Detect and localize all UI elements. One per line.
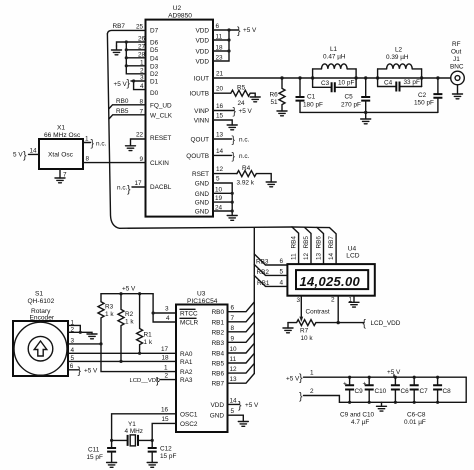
svg-text:5: 5 <box>216 176 220 183</box>
svg-text:10: 10 <box>215 186 223 193</box>
svg-text:}: } <box>91 138 95 150</box>
wire VINN pin 15 to ground <box>213 113 232 126</box>
wire D6-D2 ground ladder <box>117 36 146 75</box>
svg-text:27: 27 <box>138 43 146 50</box>
svg-text:RB2: RB2 <box>257 269 270 276</box>
net LCD_VDD to RA3 <box>130 373 177 387</box>
wire OSC2 pin 15 <box>152 416 176 440</box>
svg-text:RA2: RA2 <box>180 369 193 376</box>
wire VDD pins 6,11,18,23 ladder to +5V <box>213 23 238 62</box>
resistor R5 24 <box>231 85 255 108</box>
svg-text:GND: GND <box>195 191 210 198</box>
svg-text:R3: R3 <box>105 304 114 311</box>
svg-text:C8: C8 <box>443 388 452 395</box>
svg-text:20: 20 <box>216 86 224 93</box>
svg-text:MCLR: MCLR <box>180 320 198 327</box>
svg-text:n.c.: n.c. <box>96 141 107 148</box>
wire RB1 pin 7 to bus <box>228 312 255 322</box>
svg-text:11: 11 <box>291 253 298 260</box>
svg-text:+5 V: +5 V <box>245 402 259 409</box>
wire QOUT pin 13 n.c. <box>213 132 250 147</box>
svg-text:R5: R5 <box>237 85 246 92</box>
svg-text:RB2: RB2 <box>212 329 225 336</box>
svg-text:RB4: RB4 <box>212 351 225 358</box>
ground at VINN <box>227 125 237 130</box>
svg-text:1 k: 1 k <box>125 319 134 326</box>
svg-text:}: } <box>233 106 237 118</box>
svg-text:15: 15 <box>216 113 224 120</box>
ground at U3 GND <box>238 422 248 427</box>
svg-text:Out: Out <box>451 49 462 56</box>
capacitor C6 0.01uF <box>391 376 409 404</box>
svg-text:RF: RF <box>452 41 461 48</box>
svg-text:RB5: RB5 <box>212 361 225 368</box>
capacitor C11 15pF <box>87 440 117 462</box>
svg-text:180 pF: 180 pF <box>303 102 323 109</box>
wire bus branch RB1 to LCD pin 4 <box>254 276 287 288</box>
wire RB0 to FQ_UD pin 8 <box>109 98 146 109</box>
wire RB4 pin 10 to bus <box>228 343 255 353</box>
resistor R6 51 <box>270 78 286 111</box>
wire data bus vertical run <box>107 34 292 229</box>
svg-text:C12: C12 <box>160 446 172 453</box>
svg-text:4: 4 <box>71 347 75 354</box>
wire RB6 pin 12 to bus <box>228 363 255 373</box>
svg-text:}: } <box>78 365 82 377</box>
svg-text:C11: C11 <box>88 447 100 454</box>
svg-text:RESET: RESET <box>150 135 171 142</box>
svg-text:VINP: VINP <box>194 108 209 115</box>
resistor R1 1k <box>137 294 153 355</box>
+5V rail above R1 R2 R3 <box>101 286 153 296</box>
svg-text:13: 13 <box>230 376 238 383</box>
svg-text:14: 14 <box>328 252 335 260</box>
svg-text:}: } <box>23 149 27 161</box>
svg-text:15 pF: 15 pF <box>160 453 176 460</box>
svg-text:1 k: 1 k <box>144 339 153 346</box>
wire GND pins 5,10,19,24 ladder <box>213 176 234 216</box>
svg-text:3: 3 <box>140 75 144 82</box>
svg-text:FQ_UD: FQ_UD <box>150 103 172 110</box>
svg-text:R6: R6 <box>270 92 279 99</box>
svg-text:16: 16 <box>216 103 224 110</box>
svg-text:VDD: VDD <box>211 402 225 409</box>
wire RB3 pin 9 to bus <box>228 333 255 343</box>
wire QOUTB pin 14 n.c. <box>213 148 250 163</box>
svg-text:150 pF: 150 pF <box>414 100 434 107</box>
svg-text:18: 18 <box>162 354 170 361</box>
+5V terminal at U3 VDD pin 14 <box>228 397 260 411</box>
svg-text:VDD: VDD <box>196 49 210 56</box>
ground at R6 <box>277 111 287 116</box>
svg-text:RB5: RB5 <box>303 236 310 249</box>
svg-text:GND: GND <box>195 200 210 207</box>
svg-text:R1: R1 <box>144 332 153 339</box>
wire LCD pin 2 to LCD_VDD <box>331 296 340 325</box>
svg-text:D5: D5 <box>150 47 159 54</box>
crystal Y1 4MHz <box>110 421 154 446</box>
svg-text:}: } <box>299 391 303 403</box>
svg-text:14: 14 <box>216 148 224 155</box>
wire IOUT pin 21 <box>213 71 451 79</box>
svg-text:U2: U2 <box>173 5 182 12</box>
svg-text:10: 10 <box>230 346 238 353</box>
svg-text:5 V: 5 V <box>13 152 23 159</box>
svg-text:RB5: RB5 <box>116 108 129 115</box>
wire RB7 pin 13 to bus <box>228 374 255 384</box>
svg-text:+: + <box>363 381 367 388</box>
svg-text:16: 16 <box>161 406 169 413</box>
wire bus branch RB5 to LCD <box>292 227 311 264</box>
svg-text:CLKIN: CLKIN <box>150 160 169 167</box>
svg-text:26: 26 <box>138 36 146 43</box>
svg-text:AD9850: AD9850 <box>168 13 192 20</box>
5V terminal at X1 pin 14 <box>13 147 39 161</box>
svg-text:RB4: RB4 <box>291 236 298 249</box>
svg-text:QOUT: QOUT <box>191 137 210 144</box>
svg-text:33 pF: 33 pF <box>404 79 420 86</box>
svg-text:L1: L1 <box>330 46 338 53</box>
resistor R4 3.92k <box>237 165 272 187</box>
svg-text:C9 and C10: C9 and C10 <box>340 412 375 419</box>
svg-text:LCD__VDD: LCD__VDD <box>130 378 161 384</box>
crystal oscillator X1 66 MHz <box>39 125 83 170</box>
ground at S1 <box>87 334 97 339</box>
node C5 junction <box>364 76 367 79</box>
+5V supply line 1 <box>286 370 466 385</box>
svg-text:PIC16C54: PIC16C54 <box>187 298 218 305</box>
svg-text:1: 1 <box>140 59 144 66</box>
svg-text:13: 13 <box>216 132 224 139</box>
inductor L2 0.39uH with capacitor C4 33pF <box>376 47 423 92</box>
svg-text:QOUTB: QOUTB <box>186 153 209 160</box>
svg-text:VDD: VDD <box>196 28 210 35</box>
wire X1 pin 1 n.c. <box>83 136 107 150</box>
svg-text:}: } <box>232 150 236 162</box>
wire bus branch RB7 to LCD <box>317 227 336 264</box>
svg-text:+5 V: +5 V <box>114 81 128 88</box>
svg-text:LCD: LCD <box>346 253 359 260</box>
svg-text:RB7: RB7 <box>328 236 335 249</box>
svg-text:Y1: Y1 <box>128 421 136 428</box>
svg-text:D4: D4 <box>150 55 159 62</box>
svg-text:n.c.: n.c. <box>117 185 128 192</box>
svg-text:}: } <box>127 184 131 196</box>
inductor L1 0.47uH with capacitor C3 10pF <box>311 46 358 92</box>
svg-text:9: 9 <box>231 335 235 342</box>
wire OSC1 pin 16 <box>112 406 176 440</box>
svg-text:W_CLK: W_CLK <box>150 112 173 119</box>
svg-text:OSC1: OSC1 <box>180 411 198 418</box>
svg-text:1: 1 <box>164 365 168 372</box>
svg-text:C1: C1 <box>307 94 316 101</box>
ground at U2 GND <box>227 216 237 221</box>
svg-text:270 pF: 270 pF <box>341 102 361 109</box>
svg-text:15 pF: 15 pF <box>87 454 103 461</box>
svg-text:n.c.: n.c. <box>239 137 250 144</box>
net LCD_VDD terminal <box>363 318 401 330</box>
svg-text:2: 2 <box>165 373 169 380</box>
potentiometer R7 10k <box>288 320 364 342</box>
capacitor C8 0.01uF <box>433 376 451 404</box>
svg-text:3: 3 <box>165 306 169 313</box>
svg-text:13: 13 <box>315 252 322 260</box>
svg-text:RTCC: RTCC <box>180 311 198 318</box>
svg-text:DACBL: DACBL <box>150 184 172 191</box>
svg-text:D1: D1 <box>150 79 159 86</box>
svg-text:7: 7 <box>140 108 144 115</box>
+5V label on line 1 <box>387 369 401 377</box>
rotary encoder S1 QH-6102 <box>13 291 68 377</box>
resistor R2 1k <box>118 294 134 363</box>
svg-text:6: 6 <box>280 258 284 265</box>
resistor R3 1k <box>98 294 114 344</box>
svg-text:GND: GND <box>195 181 210 188</box>
svg-text:+: + <box>343 381 347 388</box>
wire RESET pin 22 to ground <box>131 132 146 146</box>
svg-text:}: } <box>299 372 303 384</box>
microcontroller U3 PIC16C54 <box>176 291 228 433</box>
ground at BNC <box>453 94 463 99</box>
svg-text:+5 V: +5 V <box>239 108 253 115</box>
svg-text:D3: D3 <box>150 63 159 70</box>
svg-text:14: 14 <box>230 397 238 404</box>
svg-text:8: 8 <box>231 325 235 332</box>
svg-text:U4: U4 <box>348 246 357 253</box>
svg-text:15: 15 <box>162 416 170 423</box>
svg-text:25: 25 <box>136 24 144 31</box>
capacitor C5 270pF <box>341 78 370 112</box>
svg-text:28: 28 <box>138 51 146 58</box>
svg-text:5: 5 <box>71 355 75 362</box>
svg-text:12: 12 <box>230 366 238 373</box>
wire S1 pin 4 to RA0 <box>68 346 176 354</box>
svg-text:2: 2 <box>331 297 335 304</box>
wire bus branch RB4 to LCD <box>291 227 299 264</box>
svg-text:14: 14 <box>30 147 38 154</box>
svg-text:10 pF: 10 pF <box>338 80 354 87</box>
svg-text:J1: J1 <box>453 56 460 63</box>
wire LCD pin 3 contrast wiper <box>297 296 330 322</box>
capacitor C12 15pF <box>148 440 177 462</box>
svg-text:19: 19 <box>215 195 223 202</box>
capacitor C1 180pF <box>296 78 323 112</box>
svg-text:IOUT: IOUT <box>194 76 209 83</box>
svg-text:X1: X1 <box>57 125 65 132</box>
svg-text:18: 18 <box>216 45 224 52</box>
svg-text:L2: L2 <box>395 47 403 54</box>
ground at filter rail <box>361 112 371 123</box>
wire S1 pins 1,2 to ground <box>68 319 92 334</box>
svg-text:+5 V: +5 V <box>84 367 98 374</box>
svg-text:9: 9 <box>140 156 144 163</box>
+5V terminal at VINP pin 16 <box>213 103 253 118</box>
wire S1 pin 5 to RA1 <box>68 354 176 362</box>
ground at LCD pin 1 <box>349 302 359 307</box>
wire RB5 to W_CLK pin 7 <box>109 108 146 119</box>
svg-text:12: 12 <box>216 166 224 173</box>
svg-text:2: 2 <box>310 388 314 395</box>
svg-text:VDD: VDD <box>196 59 210 66</box>
ground at C12 <box>147 463 157 468</box>
svg-text:C9: C9 <box>355 388 364 395</box>
ground at C11 <box>107 463 117 468</box>
svg-text:6: 6 <box>216 23 220 30</box>
svg-text:4: 4 <box>166 315 170 322</box>
node C1 junction <box>298 76 301 79</box>
svg-text:RB3: RB3 <box>212 340 225 347</box>
svg-text:4.7 µF: 4.7 µF <box>351 419 369 426</box>
capacitor C7 0.01uF <box>410 376 428 404</box>
svg-text:14,025.00: 14,025.00 <box>300 274 361 289</box>
svg-text:C6-C8: C6-C8 <box>407 412 426 419</box>
svg-text:+5 V: +5 V <box>243 27 257 34</box>
ground at RESET <box>126 146 136 151</box>
svg-text:Xtal Osc: Xtal Osc <box>48 152 74 159</box>
svg-text:4: 4 <box>280 279 284 286</box>
wire RB0 pin 6 to bus <box>228 302 255 312</box>
svg-text:RB3: RB3 <box>256 259 269 266</box>
svg-text:23: 23 <box>216 55 224 62</box>
svg-text:}: } <box>238 399 242 411</box>
wire +5V to RTCC and MCLR <box>152 294 177 322</box>
svg-text:6: 6 <box>70 363 74 370</box>
+5V terminal at S1 pin 6 <box>68 363 98 377</box>
svg-text:C2: C2 <box>418 92 427 99</box>
svg-text:+5 V: +5 V <box>122 286 136 293</box>
svg-text:{: { <box>363 318 367 330</box>
svg-text:5: 5 <box>231 408 235 415</box>
svg-text:C10: C10 <box>375 388 387 395</box>
DDS chip U2 AD9850 <box>146 5 214 217</box>
wire DACBL pin 17 n.c. <box>117 180 146 196</box>
svg-text:RB6: RB6 <box>212 371 225 378</box>
svg-text:8: 8 <box>140 98 144 105</box>
wire X1 pin 7 to ground <box>60 169 67 179</box>
svg-text:3: 3 <box>297 297 301 304</box>
ground at R5 <box>250 97 260 102</box>
svg-text:0.39 µH: 0.39 µH <box>386 54 409 61</box>
wire bus branch RB3 to LCD pin 6 <box>254 254 287 266</box>
wire bus branch to PIC column <box>253 228 255 374</box>
connector J1 BNC RF Out <box>450 41 464 94</box>
svg-text:U3: U3 <box>197 291 206 298</box>
svg-text:VDD: VDD <box>196 38 210 45</box>
svg-text:R4: R4 <box>242 165 251 172</box>
wire U3 GND pin 5 to ground <box>228 408 244 421</box>
svg-text:21: 21 <box>216 71 224 78</box>
svg-text:C6: C6 <box>401 388 410 395</box>
svg-text:11: 11 <box>216 34 223 41</box>
+5V source at D1/D0 <box>114 75 146 91</box>
svg-text:17: 17 <box>135 180 143 187</box>
svg-text:D0: D0 <box>150 90 159 97</box>
capacitor C10 4.7uF <box>363 376 387 404</box>
+5V terminal at VDD <box>237 25 257 37</box>
wire IOUTB pin 20 <box>213 86 231 94</box>
ground at R4 <box>266 182 276 187</box>
svg-text:3.92 k: 3.92 k <box>237 180 255 187</box>
wire RSET pin 12 <box>213 166 237 174</box>
svg-text:R2: R2 <box>125 311 134 318</box>
svg-text:LCD_VDD: LCD_VDD <box>371 320 401 327</box>
ground at supply rail <box>377 402 387 411</box>
wire RB2 pin 8 to bus <box>228 322 255 332</box>
svg-text:GND: GND <box>210 413 225 420</box>
svg-text:5: 5 <box>280 268 284 275</box>
svg-text:IOUTB: IOUTB <box>189 91 209 98</box>
wire S1 pin 3 to RA2 <box>68 337 176 371</box>
ground at D6 <box>112 46 122 55</box>
wire LCD pin 1 to ground <box>349 296 355 304</box>
svg-text:C4: C4 <box>384 79 393 86</box>
svg-text:4 MHz: 4 MHz <box>125 428 143 435</box>
svg-text:51: 51 <box>271 99 279 106</box>
svg-text:12: 12 <box>303 252 310 260</box>
svg-text:S1: S1 <box>35 291 43 298</box>
ground at X1 <box>55 178 65 183</box>
svg-text:RSET: RSET <box>192 171 209 178</box>
svg-text:6: 6 <box>231 305 235 312</box>
svg-text:11: 11 <box>230 356 237 363</box>
svg-text:RB1: RB1 <box>212 319 225 326</box>
svg-text:C3: C3 <box>321 80 330 87</box>
svg-text:0.01 µF: 0.01 µF <box>404 419 426 426</box>
svg-text:GND: GND <box>195 209 210 216</box>
label C9 and C10 value <box>340 412 375 427</box>
svg-text:RB0: RB0 <box>116 98 129 105</box>
wire RB5 pin 11 to bus <box>228 353 255 363</box>
svg-text:}: } <box>237 25 241 37</box>
ground at R7 <box>283 328 293 333</box>
svg-text:n.c.: n.c. <box>239 153 250 160</box>
svg-text:8: 8 <box>86 156 90 163</box>
node IOUT junction at R6 <box>280 76 283 79</box>
svg-text:RA0: RA0 <box>180 351 193 358</box>
svg-text:RA3: RA3 <box>180 377 193 384</box>
svg-text:}: } <box>127 78 131 90</box>
svg-text:QH-6102: QH-6102 <box>28 298 55 305</box>
svg-text:}: } <box>232 134 236 146</box>
svg-text:VINN: VINN <box>194 118 210 125</box>
svg-text:7: 7 <box>231 315 235 322</box>
svg-text:D6: D6 <box>150 39 159 46</box>
capacitor C2 150pF <box>414 78 442 112</box>
svg-text:17: 17 <box>161 346 169 353</box>
svg-text:10 k: 10 k <box>301 335 314 342</box>
svg-text:0.47 µH: 0.47 µH <box>323 54 346 61</box>
svg-text:C5: C5 <box>345 94 354 101</box>
svg-text:2: 2 <box>140 67 144 74</box>
svg-text:RB7: RB7 <box>113 23 126 30</box>
svg-text:24: 24 <box>215 205 223 212</box>
svg-text:RB0: RB0 <box>212 309 225 316</box>
label C6-C8 value <box>404 412 426 427</box>
svg-text:C7: C7 <box>420 388 429 395</box>
svg-text:3: 3 <box>71 337 75 344</box>
wire X1 pin 8 to CLKIN <box>83 156 146 163</box>
svg-text:+5 V: +5 V <box>286 376 300 383</box>
svg-text:D7: D7 <box>150 27 159 34</box>
svg-text:R7: R7 <box>300 328 309 335</box>
svg-text:22: 22 <box>136 132 144 139</box>
svg-text:1: 1 <box>310 370 314 377</box>
svg-text:RB1: RB1 <box>257 280 270 287</box>
capacitor C9 4.7uF <box>343 376 363 404</box>
node C2 junction <box>436 76 439 79</box>
wire filter ground rail <box>300 111 438 114</box>
wire bus branch RB2 to LCD pin 5 <box>254 265 287 277</box>
